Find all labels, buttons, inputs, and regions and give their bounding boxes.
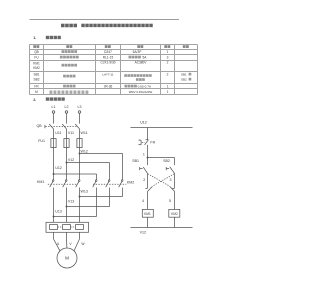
svg-text:SB2: SB2 bbox=[163, 159, 170, 163]
svg-text:V13: V13 bbox=[68, 200, 74, 204]
svg-text:0.65-0.7A: 0.65-0.7A bbox=[138, 84, 152, 88]
svg-text:V11: V11 bbox=[68, 131, 74, 135]
svg-text:1: 1 bbox=[143, 152, 145, 156]
svg-text:DZ47: DZ47 bbox=[104, 50, 112, 54]
svg-text:SB1: SB1 bbox=[33, 72, 39, 76]
wire rail to FR contact bbox=[147, 128, 149, 140]
svg-text:U11: U11 bbox=[55, 131, 61, 135]
svg-text:W13: W13 bbox=[81, 189, 88, 193]
svg-text:1: 1 bbox=[167, 50, 169, 54]
svg-text:KM2: KM2 bbox=[33, 66, 40, 70]
svg-text:2.: 2. bbox=[33, 98, 36, 102]
fuse FU1 (three cartridges) bbox=[38, 139, 82, 148]
svg-text:2: 2 bbox=[167, 72, 169, 76]
svg-text:KM2: KM2 bbox=[171, 212, 178, 216]
svg-text:KM1: KM1 bbox=[144, 212, 151, 216]
node V12 bottom rail label bbox=[140, 231, 146, 235]
svg-text:JR-36: JR-36 bbox=[104, 84, 113, 88]
svg-text:2: 2 bbox=[143, 178, 145, 182]
wire KM2 coil to bottom rail bbox=[174, 217, 176, 227]
wire FR to motor V bbox=[66, 232, 68, 248]
coil KM1 bbox=[142, 209, 153, 217]
motor M bbox=[57, 248, 77, 268]
svg-text:SB2: SB2 bbox=[181, 77, 187, 81]
node V12 tap and branch wire to KM2 bbox=[66, 158, 110, 180]
contact SB1 NC in KM2 branch bbox=[170, 186, 175, 191]
button SB2 (NO, jog reverse) bbox=[163, 159, 174, 174]
section 2 heading bbox=[33, 97, 65, 101]
svg-text:W11: W11 bbox=[81, 131, 88, 135]
svg-text:FU: FU bbox=[34, 55, 39, 59]
wire L2 to QB bbox=[66, 113, 68, 123]
node W12 tap and branch wire to KM2 bbox=[79, 149, 123, 179]
contactor KM2 main contacts bbox=[93, 180, 135, 187]
svg-text:2: 2 bbox=[167, 60, 169, 64]
svg-text:SB1: SB1 bbox=[132, 159, 139, 163]
node V11 bbox=[68, 131, 74, 135]
table: component list bbox=[30, 45, 198, 95]
svg-text:3: 3 bbox=[167, 55, 169, 59]
section 1 heading bbox=[33, 36, 61, 40]
wire V13 KM1 to FR bbox=[66, 188, 68, 223]
node 5 bbox=[169, 199, 171, 203]
wire control top rail U12 bbox=[131, 127, 193, 129]
svg-text:V12: V12 bbox=[68, 158, 74, 162]
node U11 bbox=[55, 131, 61, 135]
wire control bottom rail V12 bbox=[131, 227, 193, 229]
wire V phase FU1 to KM1 bbox=[66, 148, 68, 180]
wire L1 to QB bbox=[53, 113, 55, 123]
wire U phase FU1 to KM1 bbox=[53, 148, 55, 180]
node L3 supply terminal bbox=[78, 105, 82, 113]
contact SB2 NC in KM1 branch bbox=[145, 186, 152, 191]
node 2 bbox=[143, 178, 145, 182]
wire KM2 pole 3 merge to W13 bbox=[79, 188, 123, 198]
wire W phase FU1 to KM1 bbox=[79, 148, 81, 180]
svg-text:LAY7-11: LAY7-11 bbox=[102, 72, 114, 76]
thermal relay FR heater elements bbox=[46, 222, 89, 232]
svg-text:U12: U12 bbox=[55, 166, 62, 170]
svg-text:U12: U12 bbox=[140, 121, 147, 125]
node L1 supply terminal bbox=[52, 105, 56, 113]
svg-text:QB: QB bbox=[37, 124, 43, 128]
svg-text:L3: L3 bbox=[78, 105, 82, 109]
wire NC to KM2 coil bbox=[174, 191, 176, 209]
header rule bbox=[30, 19, 180, 21]
node U12 tap and branch wire to KM2 bbox=[53, 166, 97, 180]
svg-text:L2: L2 bbox=[65, 105, 69, 109]
interlock linkage SB1 to SB2 NC bbox=[148, 174, 170, 186]
svg-text:KM1: KM1 bbox=[37, 180, 44, 184]
svg-text:SB1: SB1 bbox=[181, 72, 187, 76]
svg-text:FR: FR bbox=[34, 84, 39, 88]
svg-text:FR: FR bbox=[150, 141, 155, 145]
svg-text:QB: QB bbox=[34, 50, 39, 54]
svg-text:SB2: SB2 bbox=[33, 77, 39, 81]
wire KM2 pole 1 merge to U13 bbox=[53, 188, 97, 218]
wire SB1 blade to NC contact bbox=[147, 173, 149, 188]
button SB1 (NO, jog forward) bbox=[132, 159, 147, 174]
svg-text:V12: V12 bbox=[140, 231, 146, 235]
svg-text:CJX1-9/30: CJX1-9/30 bbox=[100, 60, 115, 64]
svg-text:KM2: KM2 bbox=[127, 180, 134, 184]
wire NC to KM1 coil bbox=[147, 191, 149, 209]
wire QB to FU1 bbox=[54, 129, 80, 139]
svg-text:4: 4 bbox=[142, 199, 144, 203]
svg-text:AC380V: AC380V bbox=[135, 60, 148, 64]
wire FR to motor W bbox=[74, 232, 80, 251]
svg-text:M: M bbox=[35, 90, 38, 94]
motor terminal V bbox=[69, 242, 72, 246]
node L2 supply terminal bbox=[65, 105, 69, 113]
svg-text:3: 3 bbox=[170, 178, 172, 182]
wire SB2 blade to NC contact bbox=[174, 173, 176, 188]
node 3 bbox=[170, 178, 172, 182]
svg-text:1.: 1. bbox=[33, 36, 36, 40]
node W11 bbox=[81, 131, 88, 135]
svg-text:380V 0.45A/120W: 380V 0.45A/120W bbox=[129, 90, 153, 94]
svg-text:U13: U13 bbox=[55, 210, 62, 214]
wire L3 to QB bbox=[79, 113, 81, 123]
wire KM2 pole 2 merge to V13 bbox=[66, 188, 110, 208]
svg-text:5A/3P: 5A/3P bbox=[133, 50, 142, 54]
svg-text:RL1-15: RL1-15 bbox=[103, 55, 114, 59]
svg-text:W12: W12 bbox=[81, 149, 88, 153]
wire U13 KM1 to FR bbox=[53, 188, 55, 223]
svg-text:M: M bbox=[65, 256, 69, 261]
wire FR contact to node 1 bbox=[147, 145, 149, 158]
title bbox=[61, 24, 153, 28]
svg-text:KM1: KM1 bbox=[33, 61, 40, 65]
svg-text:L1: L1 bbox=[52, 105, 56, 109]
wire W13 KM1 to FR bbox=[79, 188, 81, 223]
wire branch split bbox=[148, 158, 175, 166]
motor terminal U bbox=[57, 242, 60, 246]
wire KM1 coil to bottom rail bbox=[147, 217, 149, 227]
svg-text:1: 1 bbox=[167, 90, 169, 94]
svg-text:FU1: FU1 bbox=[38, 139, 45, 143]
node U12 control rail label bbox=[140, 121, 147, 125]
contactor KM1 main contacts bbox=[37, 180, 80, 187]
coil KM2 bbox=[169, 209, 180, 217]
svg-text:5: 5 bbox=[169, 199, 171, 203]
motor terminal W bbox=[81, 242, 85, 246]
wire FR to motor U bbox=[54, 232, 61, 251]
interlock linkage SB2 to SB1 NC bbox=[153, 174, 175, 186]
svg-text:1: 1 bbox=[167, 84, 169, 88]
switch QB (3-pole knife switch) bbox=[37, 124, 80, 129]
thermal relay FR NC contact bbox=[138, 140, 155, 145]
node 4 bbox=[142, 199, 144, 203]
node 1 bbox=[143, 152, 149, 158]
